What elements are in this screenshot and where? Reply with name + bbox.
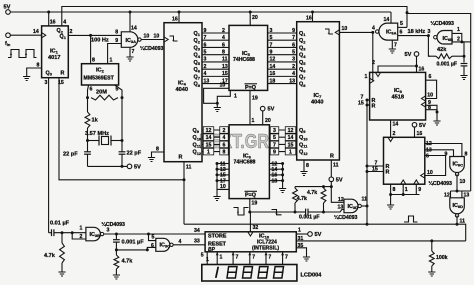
IC6 Q pin numbers <box>270 127 279 134</box>
junction 5V rail IC1 pin16 <box>47 11 50 14</box>
svg-text:7: 7 <box>236 255 239 261</box>
junction 20M right <box>121 96 124 99</box>
wire RC node to IC3C pin 6 <box>116 247 155 250</box>
wire IC6 Q2 bus to ground <box>282 164 284 189</box>
svg-text:14: 14 <box>206 135 212 141</box>
wires IC6 Q outputs to IC7 Q9-Q12 <box>269 129 296 131</box>
svg-text:35: 35 <box>298 243 304 249</box>
svg-text:5V: 5V <box>134 165 141 171</box>
svg-text:14: 14 <box>288 135 294 141</box>
svg-text:8: 8 <box>37 63 40 69</box>
svg-text:Q9: Q9 <box>299 128 306 134</box>
svg-text:IC3D: IC3D <box>348 204 359 210</box>
junction 20M left <box>86 96 89 99</box>
junction crystal right <box>121 139 124 142</box>
svg-text:6: 6 <box>151 243 154 249</box>
svg-text:12: 12 <box>270 57 276 63</box>
svg-text:5: 5 <box>201 253 204 259</box>
svg-text:14: 14 <box>393 122 399 128</box>
wire line B to ICL7224 pin 32 <box>249 212 251 232</box>
fin square wave glyph <box>8 50 37 58</box>
ground osc cap <box>460 76 467 80</box>
wire cap to ground <box>463 66 465 75</box>
svg-text:10: 10 <box>460 179 466 185</box>
wire line A to IC3D pin 13 <box>324 209 345 212</box>
wire 42k right to cap <box>463 56 465 62</box>
svg-text:IC6C: IC6C <box>453 162 464 168</box>
svg-text:IC3C: IC3C <box>160 243 171 249</box>
wire IC3A out to IC4 clock <box>141 39 164 41</box>
ground IC6 P inputs <box>213 197 220 201</box>
svg-text:4: 4 <box>222 35 225 41</box>
svg-text:6: 6 <box>90 87 93 93</box>
rising pulse glyph line B <box>404 216 418 222</box>
junction crystal left <box>86 139 89 142</box>
wire IC6A pin 7 to ground <box>391 40 393 48</box>
NAND gate IC3C <box>156 238 170 251</box>
svg-text:IC6A: IC6A <box>386 30 397 36</box>
wire IC6C output to IC6D inputs <box>456 174 458 191</box>
resistor 1k <box>85 112 90 128</box>
svg-text:0.01 µF: 0.01 µF <box>50 221 70 227</box>
ground 100k <box>428 272 435 276</box>
svg-text:11: 11 <box>333 163 339 169</box>
svg-text:Q12: Q12 <box>193 150 202 156</box>
wire 4.7k input to ground <box>61 263 63 272</box>
NAND gate IC6D <box>450 198 465 214</box>
wire IC8 pin 14 to IC9 pin 2 <box>390 120 392 137</box>
wire osc right node <box>121 98 123 141</box>
IC9 4518 counter <box>384 137 425 184</box>
wire IC1 pin15 reset to IC4 reset net <box>59 78 184 180</box>
NAND gate IC3D <box>344 199 358 213</box>
svg-text:5: 5 <box>273 135 276 141</box>
svg-text:7: 7 <box>132 49 135 55</box>
wire Q2 gate bus <box>62 7 407 28</box>
svg-text:R: R <box>372 103 376 109</box>
wire 5V to IC8 pin16 and pin2 <box>416 56 418 72</box>
svg-text:IC4: IC4 <box>178 81 187 87</box>
wire IC9 pin 12 to IC6C input <box>425 144 462 157</box>
svg-text:5: 5 <box>116 87 119 93</box>
svg-text:22 pF: 22 pF <box>63 152 78 158</box>
junction IC6D input node <box>456 190 459 193</box>
5V terminal IC8 <box>414 52 419 57</box>
svg-text:IC7: IC7 <box>314 93 323 99</box>
svg-text:1: 1 <box>80 226 83 232</box>
svg-text:10: 10 <box>342 26 348 32</box>
wire left 22pF to bottom rail <box>87 154 89 166</box>
junction compare line <box>248 211 251 214</box>
fin input terminal <box>6 33 11 38</box>
wire IC1 pin2 Q1 output <box>68 34 121 36</box>
wire IC8 pins 9 8 to ground <box>426 105 437 112</box>
wire IC9 R pins to reset bus <box>367 165 384 167</box>
wire IC8 pin 6 to pin 10 loop <box>426 80 437 98</box>
svg-text:12: 12 <box>206 128 212 134</box>
capacitor 0.001 uF store <box>113 240 120 242</box>
svg-text:5V: 5V <box>405 52 412 58</box>
svg-text:7: 7 <box>273 142 276 148</box>
junction store RC node <box>115 248 118 251</box>
wire IC3B output store line <box>104 233 205 235</box>
svg-text:7: 7 <box>268 255 271 261</box>
svg-text:74HC688: 74HC688 <box>233 57 255 63</box>
svg-text:2: 2 <box>223 128 226 134</box>
svg-text:8: 8 <box>465 152 468 158</box>
wire IC2 pin 6 leg <box>88 85 89 98</box>
svg-text:13: 13 <box>338 204 344 210</box>
svg-text:8: 8 <box>306 163 309 169</box>
svg-text:1: 1 <box>206 257 209 263</box>
capacitor 0.001 uF series <box>306 209 308 216</box>
svg-text:16: 16 <box>50 20 56 26</box>
svg-text:4: 4 <box>63 20 66 26</box>
wire IC5 pin 1 to ground <box>217 90 230 107</box>
svg-text:13: 13 <box>222 64 228 70</box>
svg-text:Q7: Q7 <box>194 74 201 80</box>
resistor 42k <box>428 55 436 57</box>
junction IC3C pin5 store line <box>147 233 150 236</box>
svg-text:6: 6 <box>429 74 432 80</box>
wire IC7 pin 10 clock input <box>339 31 372 33</box>
svg-text:10: 10 <box>220 83 226 89</box>
svg-text:5V: 5V <box>268 107 275 113</box>
svg-text:Q1: Q1 <box>194 31 201 37</box>
svg-text:P=Q: P=Q <box>245 85 256 91</box>
svg-text:(INTERSIL): (INTERSIL) <box>252 246 279 252</box>
resistor 4.7k store <box>114 255 119 269</box>
svg-text:IC3A: IC3A <box>126 38 137 44</box>
LCD display box <box>202 265 297 282</box>
svg-text:13: 13 <box>289 78 295 84</box>
5V terminal IC9 <box>412 123 417 128</box>
svg-text:14: 14 <box>270 64 276 70</box>
svg-text:8: 8 <box>92 58 95 64</box>
svg-text:6: 6 <box>223 142 226 148</box>
junction 100k <box>430 239 433 242</box>
svg-text:4.7k: 4.7k <box>297 196 307 202</box>
NAND gate IC6B <box>437 31 452 45</box>
svg-text:Q8: Q8 <box>194 82 201 88</box>
svg-text:Q11: Q11 <box>193 142 202 148</box>
svg-text:18 kHz: 18 kHz <box>408 29 426 35</box>
NAND gate IC3A <box>121 32 138 48</box>
svg-text:Q4: Q4 <box>194 53 201 59</box>
svg-text:14: 14 <box>33 29 39 35</box>
wire ICL7224 pin 1 to 5V <box>296 233 307 235</box>
svg-text:7: 7 <box>285 255 288 261</box>
wire 5V terminal to IC3D pin 12 <box>331 182 344 203</box>
svg-text:16: 16 <box>419 67 425 73</box>
ground ICL7224 pin 35 <box>303 257 310 261</box>
wire IC6 pin 19 to compare line <box>249 199 251 212</box>
junction reset net <box>183 178 186 181</box>
svg-text:15: 15 <box>222 71 228 77</box>
svg-text:16: 16 <box>306 16 312 22</box>
junction 5V rail IC3A <box>129 11 132 14</box>
wire line A mid segment <box>295 211 306 213</box>
junction IC9 bottom <box>389 193 392 196</box>
svg-text:Q9: Q9 <box>193 128 200 134</box>
svg-text:R: R <box>179 155 183 161</box>
svg-text:IC3B: IC3B <box>90 232 101 238</box>
wire IC3C pin 5 loop <box>149 234 156 241</box>
wire IC6D output to reset line <box>456 216 458 225</box>
svg-text:9: 9 <box>445 152 448 158</box>
junction IC8 ground node <box>436 111 439 114</box>
svg-text:4.7k: 4.7k <box>307 190 317 196</box>
svg-text:¼CD4093: ¼CD4093 <box>431 20 454 27</box>
IC6 P pin numbers <box>220 127 229 134</box>
svg-text:14: 14 <box>131 26 137 32</box>
wire 5V net to pullup tops <box>295 186 331 188</box>
svg-text:16: 16 <box>270 71 276 77</box>
junction IC9 R <box>366 165 369 168</box>
svg-text:Q4: Q4 <box>299 53 306 59</box>
svg-text:0.001 µF: 0.001 µF <box>122 240 145 246</box>
LCD digit 8 a <box>227 267 237 278</box>
junction line A left pullup <box>294 211 297 214</box>
capacitor 22 pF left <box>84 152 91 154</box>
svg-text:0.001 µF: 0.001 µF <box>437 62 458 68</box>
svg-text:Q5: Q5 <box>299 60 306 66</box>
svg-text:15: 15 <box>372 166 378 172</box>
wire IC8 R pins to reset bus <box>367 99 370 101</box>
svg-text:8: 8 <box>156 147 159 153</box>
svg-text:4.7k: 4.7k <box>44 253 56 259</box>
junction 42k cap node <box>463 55 466 58</box>
svg-text:11: 11 <box>460 219 466 225</box>
svg-text:1: 1 <box>207 150 210 156</box>
svg-text:12: 12 <box>444 193 450 199</box>
svg-text:2: 2 <box>457 36 460 42</box>
svg-text:8: 8 <box>222 49 225 55</box>
svg-text:19: 19 <box>252 96 258 102</box>
svg-text:31: 31 <box>298 236 304 242</box>
svg-text:9: 9 <box>115 38 118 44</box>
wire 5V to IC9 pin 16 <box>414 127 416 137</box>
wire IC3A pin 14 to 5V rail <box>129 12 131 32</box>
svg-text:Q2: Q2 <box>194 38 201 44</box>
svg-text:8: 8 <box>393 187 396 193</box>
svg-text:5: 5 <box>292 49 295 55</box>
junction 5V rail IC7 pin16 <box>311 11 314 14</box>
svg-text:IC6B: IC6B <box>443 36 454 42</box>
svg-text:1k: 1k <box>92 118 99 124</box>
svg-text:3: 3 <box>292 57 295 63</box>
svg-text:10: 10 <box>220 184 226 190</box>
svg-text:3: 3 <box>107 228 110 234</box>
svg-text:4.7k: 4.7k <box>122 259 134 265</box>
ground IC9 <box>387 205 394 209</box>
svg-text:10: 10 <box>427 170 433 176</box>
wire left pullup to line A <box>294 187 296 188</box>
wire IC1 pin16 to 5V rail <box>48 12 50 26</box>
wire IC3D output to reset bus <box>362 205 368 207</box>
ground store 4.7k <box>113 275 120 279</box>
svg-text:15: 15 <box>206 142 212 148</box>
svg-text:7: 7 <box>252 255 255 261</box>
svg-text:2: 2 <box>393 131 396 137</box>
svg-text:10: 10 <box>144 34 150 40</box>
wire reset line B <box>184 224 466 241</box>
5V terminal crystal osc <box>127 164 132 169</box>
junction 18kHz 42k node <box>427 34 430 37</box>
resistor 20M <box>91 95 118 100</box>
ground IC6A pin 7 <box>389 49 396 53</box>
display bus lines <box>206 252 208 265</box>
NAND gate IC6C <box>450 157 465 173</box>
svg-text:fin: fin <box>5 41 11 47</box>
junction 5V net <box>330 185 333 188</box>
wire IC7 pin16 to 5V rail <box>312 12 314 22</box>
svg-text:IC8: IC8 <box>394 88 403 94</box>
svg-text:4518: 4518 <box>392 95 404 101</box>
svg-text:10: 10 <box>154 34 160 40</box>
5V terminal ICL7224 <box>308 232 313 237</box>
LCD digit 8 c <box>258 267 268 278</box>
svg-text:1: 1 <box>289 150 292 156</box>
wire IC6A pin 5 to Q2 bus <box>398 26 407 28</box>
wire IC2 pin 5 leg <box>115 85 122 98</box>
svg-text:BP: BP <box>208 247 216 253</box>
svg-text:4040: 4040 <box>176 87 188 93</box>
wire IC6A pin 14 to 5V rail <box>390 12 392 23</box>
svg-text:12: 12 <box>288 128 294 134</box>
svg-text:5V: 5V <box>315 232 322 238</box>
resistor 100k <box>429 251 434 266</box>
svg-text:18: 18 <box>270 78 276 84</box>
svg-text:2: 2 <box>70 29 73 35</box>
svg-text:4: 4 <box>372 26 375 32</box>
falling edge glyph line A <box>272 210 282 215</box>
svg-text:3: 3 <box>428 29 431 35</box>
svg-text:MM5369EST: MM5369EST <box>84 76 115 82</box>
svg-text:34: 34 <box>194 228 200 234</box>
wire IC3A pin 7 to ground <box>129 47 131 56</box>
svg-text:100k: 100k <box>436 255 448 261</box>
wire left 22pF leg <box>87 141 89 152</box>
wire ICL7224 pin 31 line <box>296 240 465 242</box>
wire IC4 pin 8 to ground <box>152 152 165 157</box>
ground IC5 pin 1 <box>214 108 221 112</box>
svg-text:1: 1 <box>365 74 368 80</box>
resistor 4.7k right pullup <box>321 188 326 203</box>
wire IC7 pin 8 to ground <box>303 160 305 171</box>
svg-text:3: 3 <box>45 80 48 86</box>
IC7 Q9-Q12 pin numbers <box>285 127 296 134</box>
svg-text:16: 16 <box>417 131 423 137</box>
wire line A left segment <box>250 211 295 213</box>
svg-text:4: 4 <box>223 135 226 141</box>
svg-text:5V: 5V <box>336 177 343 183</box>
junction line B reset bus <box>366 223 369 226</box>
junction IC8 R <box>366 99 369 102</box>
svg-text:1: 1 <box>457 27 460 33</box>
wire 42k left to output node <box>428 36 430 57</box>
svg-text:7: 7 <box>394 43 397 49</box>
svg-text:Q10: Q10 <box>193 135 202 141</box>
svg-text:2: 2 <box>222 28 225 34</box>
5V terminal IC6 pin 20 <box>260 106 265 111</box>
IC6 unused P input stubs <box>217 163 229 165</box>
wire IC6 P2 bus to ground <box>216 189 218 196</box>
svg-text:11: 11 <box>186 165 192 171</box>
svg-text:16: 16 <box>172 17 178 23</box>
wire cap to gate node <box>54 232 86 234</box>
svg-text:3: 3 <box>273 128 276 134</box>
junction 4.7k tap <box>61 231 64 234</box>
wire IC6A output to IC8 clock <box>372 32 374 80</box>
svg-text:10: 10 <box>427 93 433 99</box>
svg-text:Q11: Q11 <box>299 142 308 148</box>
svg-text:14: 14 <box>384 17 390 23</box>
svg-text:3: 3 <box>270 28 273 34</box>
IC5 74HC688 comparator <box>229 25 268 90</box>
svg-text:Q5: Q5 <box>194 60 201 66</box>
svg-text:5: 5 <box>152 235 155 241</box>
svg-text:5V: 5V <box>419 123 426 129</box>
LCD digit 8 d <box>273 267 283 278</box>
svg-text:ICL7224: ICL7224 <box>257 239 277 245</box>
ground IC8 <box>433 121 440 125</box>
wire IC5 pin 19 to IC6 pin 1 <box>249 90 251 124</box>
junction osc bottom <box>121 165 124 168</box>
wire right 22pF to bottom rail <box>121 154 123 166</box>
svg-text:33: 33 <box>194 239 200 245</box>
svg-text:Q6: Q6 <box>299 67 306 73</box>
wire osc bottom rail to 5V <box>88 165 128 167</box>
svg-text:R: R <box>330 154 334 160</box>
NAND gate IC6A <box>379 23 398 40</box>
wire store cap leg <box>115 234 117 239</box>
wire IC1 pin 8 to ground <box>27 68 42 76</box>
junction IC6A output node <box>371 31 374 34</box>
svg-text:4040: 4040 <box>311 100 323 106</box>
wire IC1 Q1 to IC2 pin 8 <box>90 35 92 63</box>
svg-text:LCD004: LCD004 <box>301 273 323 279</box>
svg-text:Q3: Q3 <box>299 45 306 51</box>
junction IC5 pin1 ground <box>216 102 219 105</box>
svg-text:7: 7 <box>270 42 273 48</box>
svg-text:12: 12 <box>338 197 344 203</box>
svg-text:¼CD4093: ¼CD4093 <box>429 180 452 187</box>
IC6 unused Q input stubs <box>269 163 282 165</box>
wire pin2 node to 42k and cap <box>462 42 464 56</box>
junction IC3B input node <box>71 231 74 234</box>
resistor 4.7k left pullup <box>293 188 298 203</box>
svg-text:STORE: STORE <box>208 233 227 239</box>
svg-text:74HC688: 74HC688 <box>234 160 256 166</box>
svg-text:22 pF: 22 pF <box>127 151 142 157</box>
svg-text:8: 8 <box>223 150 226 156</box>
IC10 ICL7224 <box>205 232 296 252</box>
junction IC3C pin6 <box>146 248 149 251</box>
junction 5V rail IC5 pin20 <box>249 11 252 14</box>
wire line A right segment <box>308 211 324 213</box>
wire IC2 pin1 100Hz to IC3A pin 9 <box>108 44 122 64</box>
junction reset bus IC3D <box>366 205 369 208</box>
ground IC6 Q inputs <box>279 189 286 193</box>
junction IC8 pin16 node <box>415 65 418 68</box>
svg-text:Q7: Q7 <box>299 74 306 80</box>
svg-text:Q12: Q12 <box>299 150 308 156</box>
svg-text:32: 32 <box>253 225 259 231</box>
svg-text:¼CD4093: ¼CD4093 <box>140 45 163 52</box>
svg-text:Q10: Q10 <box>299 135 308 141</box>
svg-text:7: 7 <box>292 35 295 41</box>
